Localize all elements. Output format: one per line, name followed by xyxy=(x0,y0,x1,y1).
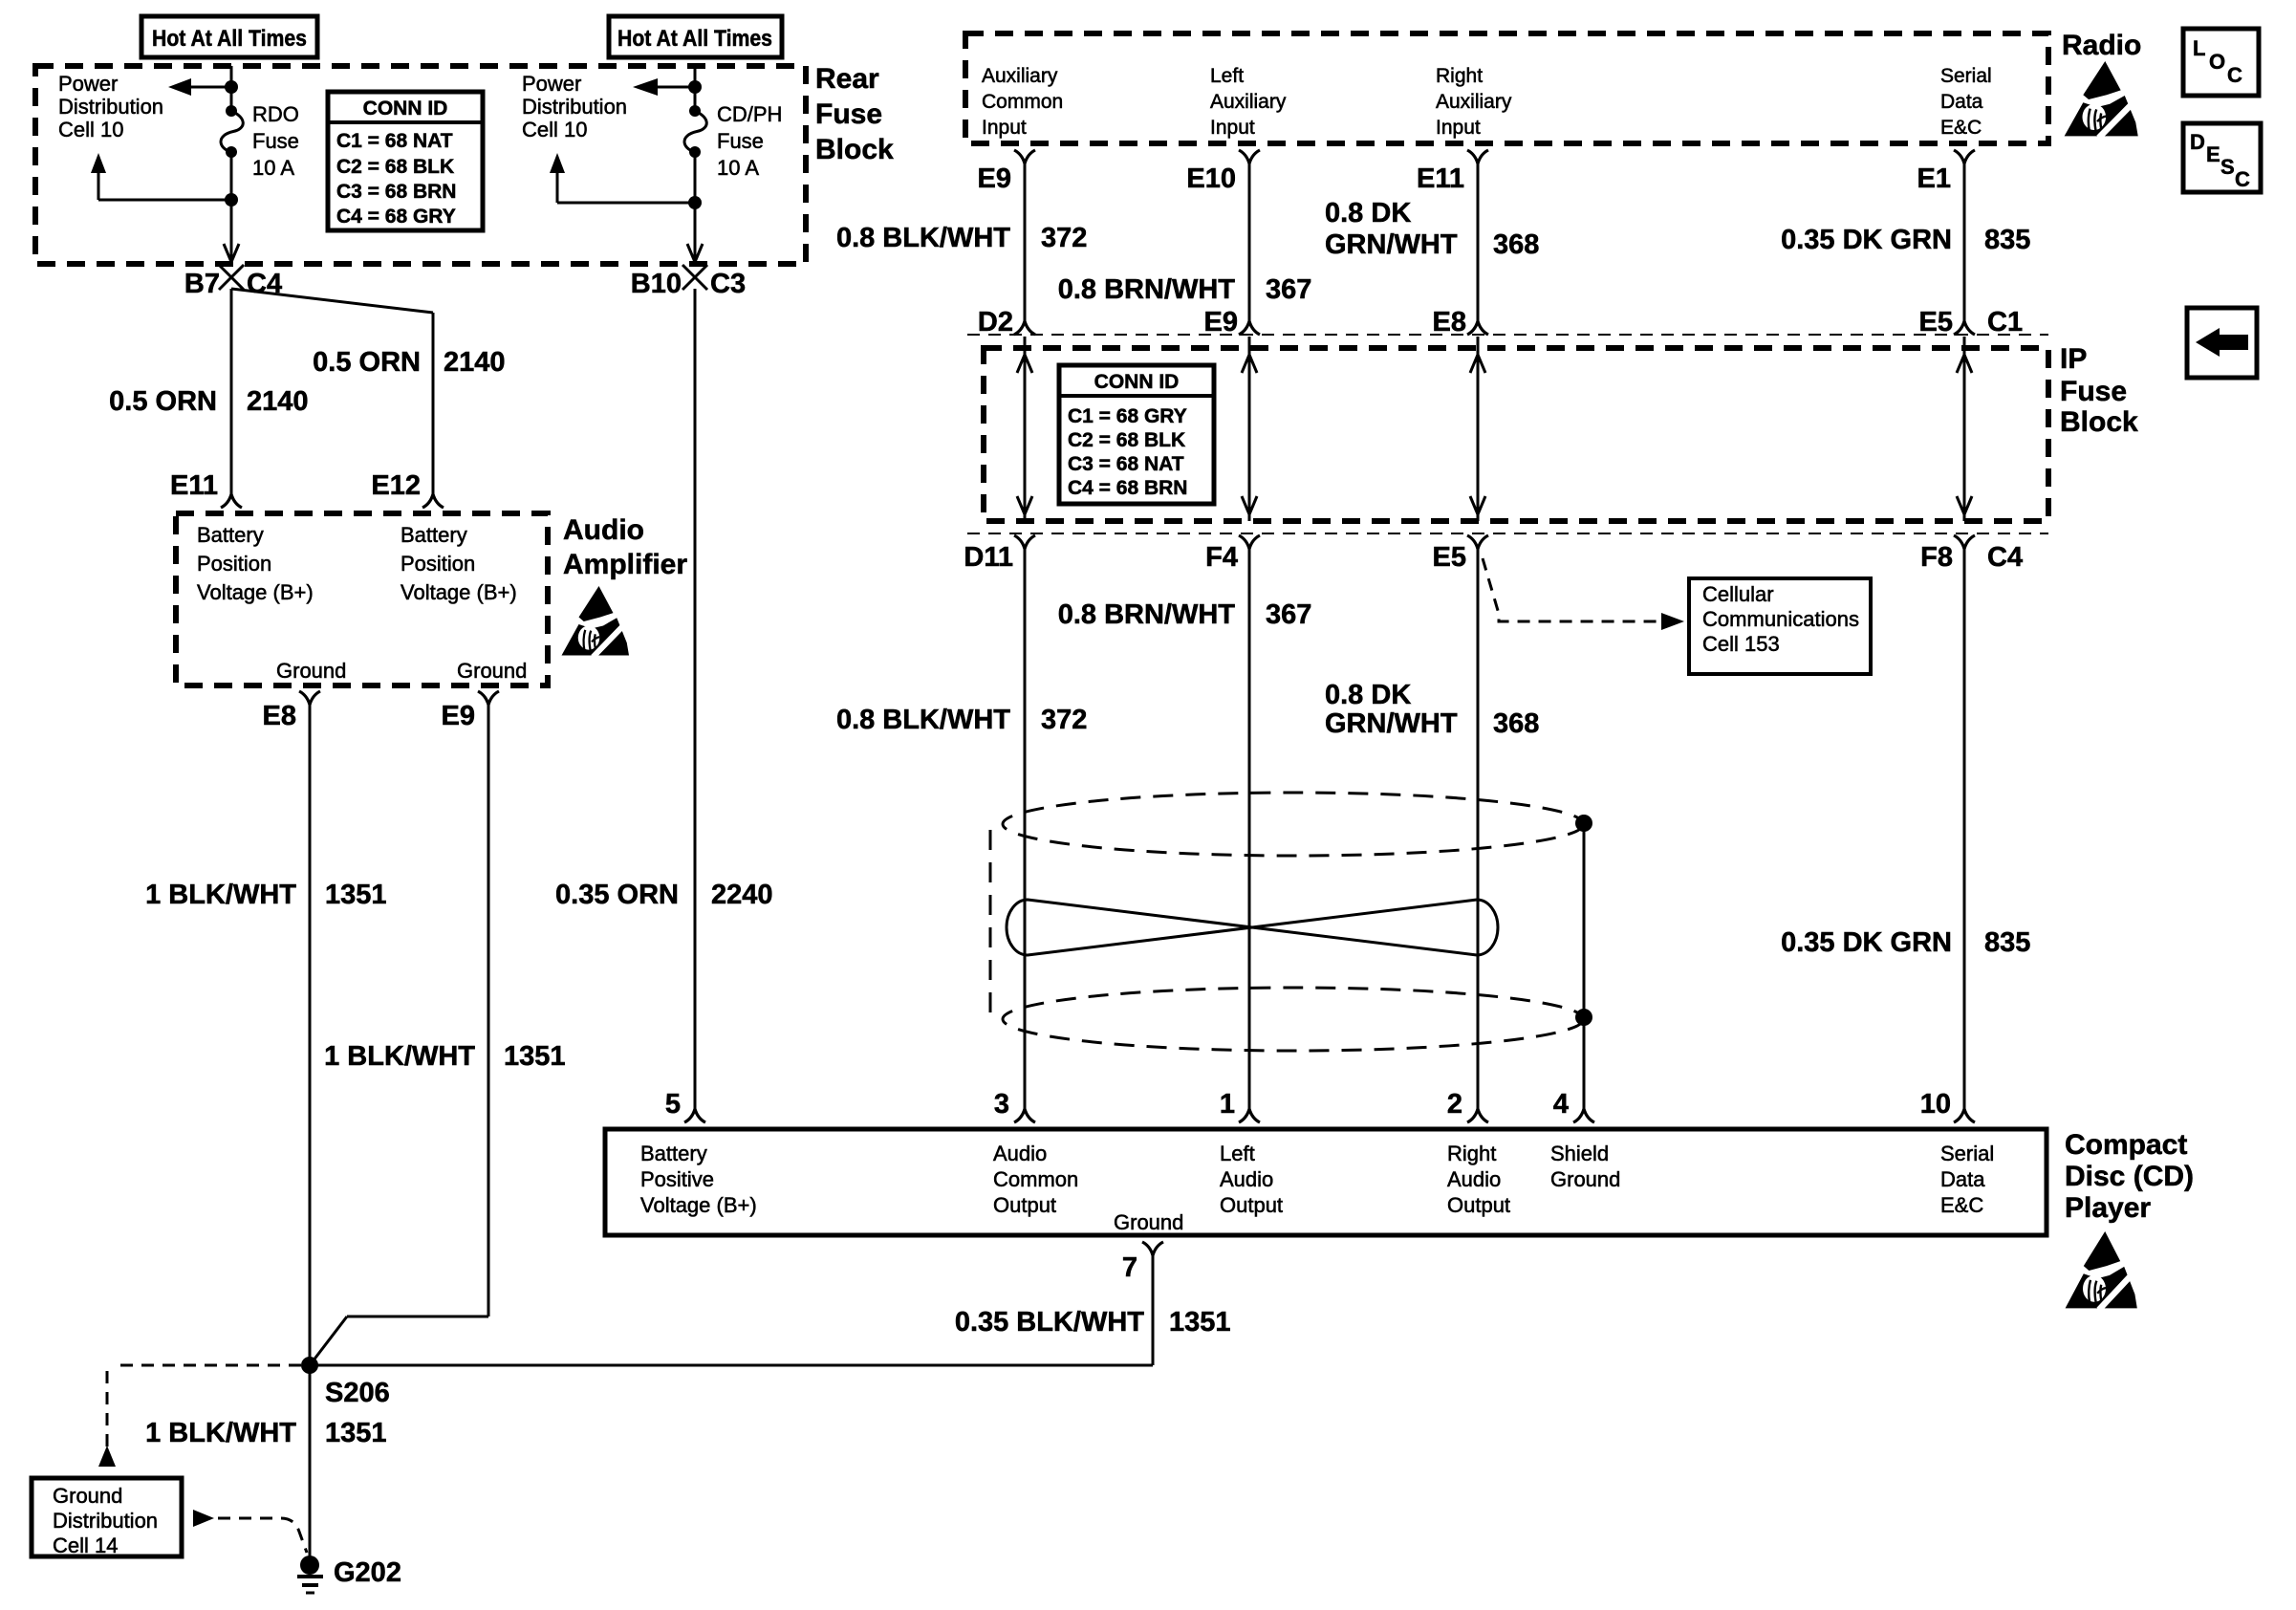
svg-text:Battery: Battery xyxy=(640,1142,707,1165)
IP fuse block connector face C1 (thin dashed) xyxy=(967,334,2048,336)
svg-text:B7: B7 xyxy=(184,269,220,299)
svg-text:C2 = 68 BLK: C2 = 68 BLK xyxy=(336,156,454,178)
wire: RDO fuse output to B7 xyxy=(230,152,233,250)
svg-text:Ground: Ground xyxy=(1114,1210,1183,1234)
svg-text:Power: Power xyxy=(522,72,581,96)
svg-text:IP: IP xyxy=(2060,343,2087,375)
svg-text:0.8 BLK/WHT: 0.8 BLK/WHT xyxy=(836,705,1010,735)
svg-text:Fuse: Fuse xyxy=(2060,376,2127,407)
svg-text:2140: 2140 xyxy=(247,386,309,417)
wire: CD/PH fuse output to B10 xyxy=(694,152,697,250)
connector pin E10 (radio) xyxy=(1239,150,1260,163)
svg-text:Hot At All Times: Hot At All Times xyxy=(152,26,307,52)
svg-text:Output: Output xyxy=(1220,1193,1283,1217)
svg-text:Cell 153: Cell 153 xyxy=(1702,632,1780,656)
svg-text:C4 = 68 BRN: C4 = 68 BRN xyxy=(1068,477,1187,499)
wire 372: D11 to CD player pin 3 xyxy=(1024,549,1027,1109)
connector pin E9 (amplifier ground) xyxy=(478,691,499,705)
svg-text:Fuse: Fuse xyxy=(815,98,882,130)
svg-text:Communications: Communications xyxy=(1702,607,1859,631)
svg-text:Voltage (B+): Voltage (B+) xyxy=(640,1193,757,1217)
svg-text:C2 = 68 BLK: C2 = 68 BLK xyxy=(1068,429,1185,451)
wire 1351 from E8 to S206 xyxy=(309,705,312,1365)
svg-text:E12: E12 xyxy=(371,470,421,501)
label box: Hot At All Times (right) xyxy=(609,16,782,57)
connector E8 (IP fuse block) xyxy=(1467,321,1488,335)
svg-text:Ground: Ground xyxy=(53,1484,122,1508)
svg-text:Fuse: Fuse xyxy=(252,129,299,153)
svg-text:Ground: Ground xyxy=(276,659,346,683)
label box: Hot At All Times (left) xyxy=(141,16,317,57)
connector pin E11 (radio) xyxy=(1467,150,1488,163)
svg-text:0.8 BRN/WHT: 0.8 BRN/WHT xyxy=(1058,274,1236,305)
svg-text:Audio: Audio xyxy=(1220,1167,1273,1191)
svg-text:Distribution: Distribution xyxy=(58,95,163,119)
svg-text:Serial: Serial xyxy=(1940,65,1992,87)
svg-text:Cellular: Cellular xyxy=(1702,582,1774,606)
svg-text:S: S xyxy=(2220,155,2235,179)
wire 1351: S206 to G202 xyxy=(309,1365,312,1565)
svg-text:Player: Player xyxy=(2065,1192,2151,1224)
svg-text:0.8 BRN/WHT: 0.8 BRN/WHT xyxy=(1058,599,1236,630)
connector pin E9 (radio) xyxy=(1014,150,1035,163)
connector pin E1 (radio) xyxy=(1954,150,1975,163)
svg-text:Input: Input xyxy=(1436,117,1481,139)
svg-text:Input: Input xyxy=(982,117,1027,139)
arrow to Power Distribution (right) xyxy=(656,86,695,89)
svg-text:Distribution: Distribution xyxy=(522,95,627,119)
svg-text:Disc (CD): Disc (CD) xyxy=(2065,1161,2194,1192)
svg-text:Auxiliary: Auxiliary xyxy=(1210,91,1287,113)
shield ellipse (top) xyxy=(1003,793,1584,856)
svg-text:1 BLK/WHT: 1 BLK/WHT xyxy=(324,1041,475,1072)
dashed reference: E5 to Cellular Communications xyxy=(1483,558,1659,621)
arrowhead down at rear fuse block exit (right) xyxy=(694,250,697,262)
svg-text:Rear: Rear xyxy=(815,63,879,95)
svg-text:2240: 2240 xyxy=(711,880,773,910)
connector F4 (IP fuse block bottom) xyxy=(1239,535,1260,549)
svg-text:C1 = 68 NAT: C1 = 68 NAT xyxy=(336,130,453,152)
feed arrow up to Power Distribution (left) xyxy=(91,153,106,173)
svg-text:Distribution: Distribution xyxy=(53,1509,158,1533)
connector pin 7 (CD player ground) xyxy=(1142,1242,1163,1255)
connector D2 (IP fuse block) xyxy=(1014,321,1035,335)
connector D11 (IP fuse block bottom) xyxy=(1014,535,1035,549)
svg-text:E11: E11 xyxy=(1417,163,1464,194)
svg-text:E1: E1 xyxy=(1917,163,1951,194)
svg-text:5: 5 xyxy=(665,1089,681,1120)
svg-text:D: D xyxy=(2190,130,2205,154)
connector pin 5 (CD player) xyxy=(684,1109,705,1122)
wire 367: F4 to CD player pin 1 xyxy=(1248,549,1251,1109)
connector E5/C1 (IP fuse block) xyxy=(1954,321,1975,335)
svg-text:D11: D11 xyxy=(964,542,1013,573)
IP fuse block connector face C4 (thin dashed) xyxy=(967,533,2048,534)
svg-text:Battery: Battery xyxy=(197,523,264,547)
svg-text:10 A: 10 A xyxy=(252,156,294,180)
svg-text:1351: 1351 xyxy=(1169,1307,1231,1338)
connector pin E12 (amplifier) xyxy=(422,494,444,508)
svg-text:C4: C4 xyxy=(1987,542,2023,573)
svg-text:0.35 BLK/WHT: 0.35 BLK/WHT xyxy=(955,1307,1144,1338)
svg-text:1351: 1351 xyxy=(325,1418,387,1448)
ESD symbol (Radio) xyxy=(2065,61,2138,138)
shield drain wire to pin 4 xyxy=(1583,823,1586,1109)
wire 372: radio E9 to IP fuse block D2 xyxy=(1024,163,1027,321)
svg-text:F4: F4 xyxy=(1205,542,1238,573)
svg-text:E10: E10 xyxy=(1186,163,1236,194)
svg-text:1351: 1351 xyxy=(504,1041,566,1072)
splice S206 xyxy=(301,1357,318,1374)
svg-text:Fuse: Fuse xyxy=(717,129,764,153)
arrow to Power Distribution (left) xyxy=(189,86,231,89)
svg-text:0.8 DK: 0.8 DK xyxy=(1325,680,1411,710)
svg-text:Hot At All Times: Hot At All Times xyxy=(617,26,772,52)
dashed reference: S206 to Ground Distribution xyxy=(113,1364,301,1367)
svg-text:Data: Data xyxy=(1940,91,1983,113)
ESD symbol (CD player) xyxy=(2066,1231,2137,1310)
svg-text:E11: E11 xyxy=(170,470,218,501)
svg-text:Output: Output xyxy=(993,1193,1056,1217)
svg-text:C3: C3 xyxy=(710,269,746,299)
svg-text:Left: Left xyxy=(1210,65,1244,87)
svg-text:Voltage (B+): Voltage (B+) xyxy=(197,580,314,604)
svg-text:4: 4 xyxy=(1553,1089,1569,1120)
svg-text:C1 = 68 GRY: C1 = 68 GRY xyxy=(1068,405,1187,427)
svg-text:835: 835 xyxy=(1984,225,2030,255)
svg-text:Power: Power xyxy=(58,72,118,96)
svg-text:368: 368 xyxy=(1493,229,1539,260)
svg-text:O: O xyxy=(2209,50,2225,74)
svg-text:1 BLK/WHT: 1 BLK/WHT xyxy=(145,1418,296,1448)
svg-text:GRN/WHT: GRN/WHT xyxy=(1325,708,1458,739)
feed arrow up to Power Distribution (right) xyxy=(550,153,565,173)
dashed reference: Ground Distribution to G202 xyxy=(193,1510,214,1527)
svg-text:CONN ID: CONN ID xyxy=(363,98,448,120)
svg-text:Auxiliary: Auxiliary xyxy=(1436,91,1512,113)
svg-text:GRN/WHT: GRN/WHT xyxy=(1325,229,1458,260)
Ground Distribution Cell 14 box xyxy=(32,1478,182,1556)
svg-text:E8: E8 xyxy=(1433,307,1466,337)
Cellular Communications Cell 153 box xyxy=(1689,578,1871,674)
connector pin 10 (CD player) xyxy=(1954,1109,1975,1122)
svg-text:Audio: Audio xyxy=(993,1142,1047,1165)
svg-text:2: 2 xyxy=(1447,1089,1462,1120)
CONN ID table (rear fuse block) xyxy=(328,92,483,230)
svg-text:835: 835 xyxy=(1984,927,2030,958)
IP Fuse Block outline (dashed) xyxy=(984,348,2048,521)
svg-text:3: 3 xyxy=(994,1089,1009,1120)
svg-text:Right: Right xyxy=(1436,65,1483,87)
wire 367: radio E10 to IP fuse block E9 xyxy=(1248,163,1251,321)
DESC reference box xyxy=(2183,123,2261,192)
svg-text:Ground: Ground xyxy=(1550,1167,1620,1191)
svg-text:E5: E5 xyxy=(1919,307,1953,337)
svg-text:367: 367 xyxy=(1266,599,1311,630)
svg-text:0.8 DK: 0.8 DK xyxy=(1325,198,1411,228)
svg-text:Data: Data xyxy=(1940,1167,1985,1191)
Audio Amplifier outline (dashed) xyxy=(176,513,548,685)
svg-text:E8: E8 xyxy=(263,701,296,731)
twisted pair symbol xyxy=(1007,900,1498,955)
fuse CD/PH 10 A xyxy=(689,105,701,117)
arrowhead down at rear fuse block exit (left) xyxy=(230,250,233,262)
svg-text:0.5 ORN: 0.5 ORN xyxy=(109,386,217,417)
shield left edge (dashed) xyxy=(989,830,992,1025)
wire through IP fuse block (E9-F4) xyxy=(1248,337,1251,521)
svg-text:E9: E9 xyxy=(1204,307,1238,337)
svg-text:CONN ID: CONN ID xyxy=(1094,371,1180,393)
wire: hot feed into RDO fuse xyxy=(230,66,233,111)
svg-text:7: 7 xyxy=(1122,1252,1137,1283)
ground G202 xyxy=(300,1556,319,1575)
svg-text:10 A: 10 A xyxy=(717,156,759,180)
connector E5 (IP fuse block bottom) xyxy=(1467,535,1488,549)
svg-text:2140: 2140 xyxy=(444,347,506,378)
svg-text:372: 372 xyxy=(1041,223,1087,253)
svg-text:Position: Position xyxy=(401,552,475,576)
left arrow reference box xyxy=(2187,308,2257,378)
svg-text:Position: Position xyxy=(197,552,271,576)
svg-text:1351: 1351 xyxy=(325,880,387,910)
svg-text:Ground: Ground xyxy=(457,659,527,683)
ESD symbol (Audio Amplifier) xyxy=(562,586,630,657)
svg-text:C3 = 68 BRN: C3 = 68 BRN xyxy=(336,181,456,203)
svg-text:Positive: Positive xyxy=(640,1167,714,1191)
connector E9 (IP fuse block) xyxy=(1239,321,1260,335)
svg-text:Audio: Audio xyxy=(1447,1167,1501,1191)
Radio outline (dashed) xyxy=(965,33,2048,143)
svg-text:367: 367 xyxy=(1266,274,1311,305)
svg-text:0.35 DK GRN: 0.35 DK GRN xyxy=(1781,225,1952,255)
svg-text:E: E xyxy=(2206,142,2220,166)
connector pin 4 (CD player) xyxy=(1573,1109,1594,1122)
fuse RDO 10 A xyxy=(226,105,237,117)
svg-text:Voltage (B+): Voltage (B+) xyxy=(401,580,517,604)
svg-text:C: C xyxy=(2227,63,2242,87)
svg-text:372: 372 xyxy=(1041,705,1087,735)
connector B10/C3 xyxy=(682,265,707,290)
svg-text:Cell 10: Cell 10 xyxy=(58,118,123,141)
Compact Disc (CD) Player box xyxy=(605,1129,2047,1235)
connector B7/C4 xyxy=(219,265,244,290)
svg-text:E5: E5 xyxy=(1433,542,1466,573)
svg-text:G202: G202 xyxy=(334,1557,401,1588)
svg-text:D2: D2 xyxy=(978,307,1013,337)
wire 368: E5 to CD player pin 2 xyxy=(1477,549,1480,1109)
wire 835: F8 to CD player pin 10 xyxy=(1963,549,1966,1109)
svg-text:0.35 DK GRN: 0.35 DK GRN xyxy=(1781,927,1952,958)
connector pin 2 (CD player) xyxy=(1467,1109,1488,1122)
svg-text:10: 10 xyxy=(1920,1089,1951,1120)
svg-text:Left: Left xyxy=(1220,1142,1255,1165)
svg-text:Battery: Battery xyxy=(401,523,467,547)
svg-text:368: 368 xyxy=(1493,708,1539,739)
svg-text:0.5 ORN: 0.5 ORN xyxy=(313,347,421,378)
wire through IP fuse block (D2-D11) xyxy=(1024,337,1027,521)
svg-text:Output: Output xyxy=(1447,1193,1510,1217)
svg-text:E9: E9 xyxy=(978,163,1011,194)
connector pin 3 (CD player) xyxy=(1014,1109,1035,1122)
svg-text:Common: Common xyxy=(982,91,1063,113)
svg-text:C: C xyxy=(2235,167,2250,191)
connector pin 1 (CD player) xyxy=(1239,1109,1260,1122)
svg-text:E9: E9 xyxy=(442,701,475,731)
svg-text:Cell 10: Cell 10 xyxy=(522,118,587,141)
LOC reference box xyxy=(2183,29,2259,96)
svg-text:C1: C1 xyxy=(1987,307,2023,337)
connector F8/C4 (IP fuse block bottom) xyxy=(1954,535,1975,549)
connector pin E8 (amplifier ground) xyxy=(299,691,320,705)
wire through IP fuse block (E8-E5) xyxy=(1477,337,1480,521)
shield ellipse (bottom) xyxy=(1003,988,1584,1051)
wire 1351: CD player pin 7 to S206 xyxy=(1152,1255,1155,1365)
svg-text:1: 1 xyxy=(1220,1089,1235,1120)
svg-text:RDO: RDO xyxy=(252,102,299,126)
svg-text:C4 = 68 GRY: C4 = 68 GRY xyxy=(336,206,456,228)
svg-text:Compact: Compact xyxy=(2065,1129,2187,1161)
wire 2140: B7 to amplifier E11 xyxy=(230,289,233,494)
svg-text:E&C: E&C xyxy=(1940,1193,1983,1217)
svg-text:Auxiliary: Auxiliary xyxy=(982,65,1058,87)
svg-text:Amplifier: Amplifier xyxy=(563,549,687,580)
svg-text:0.8 BLK/WHT: 0.8 BLK/WHT xyxy=(836,223,1010,253)
svg-text:Input: Input xyxy=(1210,117,1255,139)
svg-text:S206: S206 xyxy=(325,1378,390,1408)
svg-text:Shield: Shield xyxy=(1550,1142,1609,1165)
svg-text:L: L xyxy=(2193,36,2205,60)
wire 368: radio E11 to IP fuse block E8 xyxy=(1477,163,1480,321)
svg-text:F8: F8 xyxy=(1920,542,1953,573)
connector pin E11 (amplifier) xyxy=(221,494,242,508)
svg-text:B10: B10 xyxy=(631,269,682,299)
svg-text:0.35 ORN: 0.35 ORN xyxy=(555,880,679,910)
wire 835: radio E1 to IP fuse block E5 xyxy=(1963,163,1966,321)
svg-text:Right: Right xyxy=(1447,1142,1496,1165)
svg-text:Block: Block xyxy=(2060,406,2138,438)
Rear Fuse Block outline (dashed) xyxy=(35,66,806,264)
wire through IP fuse block (E5-F8) xyxy=(1963,337,1966,521)
svg-text:Cell 14: Cell 14 xyxy=(53,1534,118,1557)
svg-text:Block: Block xyxy=(815,134,894,165)
wire 2140 branch: C4 to amplifier E12 xyxy=(231,289,433,313)
wire: hot feed into CD/PH fuse xyxy=(694,66,697,111)
svg-text:Serial: Serial xyxy=(1940,1142,1994,1165)
svg-text:Radio: Radio xyxy=(2062,30,2141,61)
CONN ID table (IP fuse block) xyxy=(1059,365,1214,504)
svg-text:1 BLK/WHT: 1 BLK/WHT xyxy=(145,880,296,910)
svg-text:E&C: E&C xyxy=(1940,117,1982,139)
svg-text:Common: Common xyxy=(993,1167,1078,1191)
wire 2240: B10 to CD player pin 5 xyxy=(694,289,697,1109)
svg-text:CD/PH: CD/PH xyxy=(717,102,782,126)
wire 1351 from E9 to S206 xyxy=(487,705,490,1316)
svg-text:C3 = 68 NAT: C3 = 68 NAT xyxy=(1068,453,1184,475)
svg-text:Audio: Audio xyxy=(563,514,644,546)
